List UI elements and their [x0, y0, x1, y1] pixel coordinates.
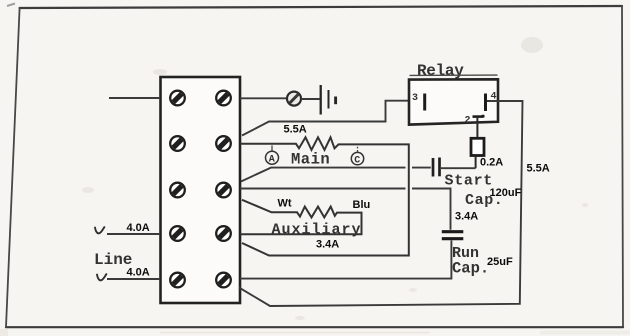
svg-text:3.4A: 3.4A	[455, 211, 478, 223]
wire TB1 row1 to connector	[240, 97, 287, 99]
svg-text:C: C	[354, 155, 360, 166]
wire run capacitor to TB1 row5	[240, 241, 451, 279]
auxiliary winding M2 wire loop with resistor zigzag	[240, 200, 362, 234]
svg-text:0.2A: 0.2A	[480, 157, 503, 169]
wire line L input to TB1 row1	[109, 97, 160, 99]
screw terminal TB1 row5 left	[170, 273, 185, 288]
PTC resistor R1 0.2A	[471, 138, 484, 155]
thermal protector A terminal	[266, 145, 279, 165]
screw terminal TB1 row3 right	[216, 183, 231, 198]
svg-text:120uF: 120uF	[490, 187, 522, 199]
svg-text:4.0A: 4.0A	[127, 267, 150, 279]
svg-text:Cap.: Cap.	[452, 260, 489, 278]
wire relay pin4 to bottom rail	[239, 101, 523, 306]
screw terminal TB1 row4 left	[170, 226, 185, 241]
svg-text:5.5A: 5.5A	[527, 163, 550, 175]
wire TB1 row3 to start capacitor	[241, 168, 431, 182]
svg-text:Auxiliary: Auxiliary	[272, 222, 362, 239]
relay K1 body	[409, 79, 498, 124]
svg-text:Relay: Relay	[417, 62, 464, 80]
wire connector to ground	[301, 98, 320, 100]
AC source symbol tilde line 2	[97, 274, 106, 280]
svg-text:25uF: 25uF	[487, 256, 513, 268]
svg-text:4.0A: 4.0A	[127, 222, 150, 234]
screw terminal TB1 row1 left	[170, 91, 185, 106]
wire line 1 to TB1 row4	[107, 233, 160, 235]
svg-text:5.5A: 5.5A	[284, 124, 307, 136]
svg-text:2: 2	[465, 116, 471, 127]
svg-text:Wt: Wt	[278, 198, 292, 210]
screw terminal TB1 row2 left	[170, 136, 185, 151]
wire relay pin2 to PTC resistor	[476, 117, 478, 139]
main winding M1 wire loop with resistor zigzag	[240, 137, 409, 255]
svg-text:3.4A: 3.4A	[316, 239, 339, 251]
wire PTC to start-cap node	[475, 156, 477, 169]
wire line 2 to TB1 row5	[107, 278, 160, 280]
svg-text:Blu: Blu	[353, 199, 371, 211]
svg-text:3: 3	[412, 93, 418, 104]
screw terminal TB1 row2 right	[216, 136, 231, 151]
wire start capacitor to PTC node	[441, 167, 476, 169]
start capacitor C1 plates	[433, 158, 440, 177]
svg-text:Start: Start	[445, 173, 494, 190]
relay pin 2 tick	[473, 115, 483, 118]
wire 5.5A branch TB1 row2 to relay pin3	[242, 101, 423, 136]
thermal protector C terminal	[351, 147, 363, 167]
relay K1 top double edge	[410, 74, 498, 76]
run capacitor C2 plates	[442, 232, 464, 239]
terminal block TB1	[161, 77, 241, 303]
AC source symbol tilde line 1	[95, 227, 104, 233]
relay pin 2 tick end dot	[481, 115, 484, 118]
screw terminal TB1 row1 right	[216, 91, 231, 106]
relay pin 4 contact bar	[484, 94, 487, 112]
svg-text:A: A	[269, 155, 275, 166]
svg-text:Main: Main	[291, 150, 330, 168]
relay pin 3 contact bar	[423, 94, 426, 111]
screw terminal TB1 row3 left	[170, 183, 185, 198]
wire TB1 row3 to run capacitor	[240, 189, 451, 230]
screw terminal TB1 row5 right	[216, 273, 231, 288]
screw terminal TB1 row4 right	[216, 226, 231, 241]
ground symbol	[321, 85, 336, 115]
connector terminal P1	[287, 92, 301, 106]
